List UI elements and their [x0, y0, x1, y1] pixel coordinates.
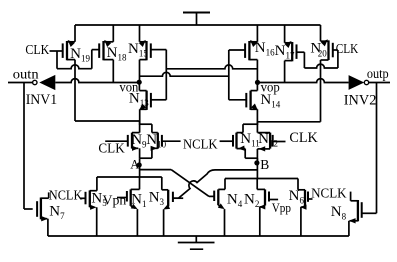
wire N18 source to von — [112, 60, 114, 83]
wire N9 source down — [139, 148, 141, 158]
label N2 — [244, 192, 259, 210]
label Vpp — [272, 200, 291, 215]
svg-text:N15: N15 — [128, 41, 148, 59]
svg-text:outp: outp — [367, 67, 389, 82]
ground rail — [48, 235, 349, 237]
wire N15/N13 gates column — [165, 50, 167, 100]
wire pair bottom to node B — [256, 158, 258, 178]
transistor N20 — [321, 25, 338, 60]
label N6 — [289, 188, 305, 206]
svg-text:CLK: CLK — [25, 43, 49, 58]
label N11 — [240, 131, 260, 149]
label N10 — [146, 132, 166, 150]
wire outp to N8 gate — [362, 83, 376, 214]
label N18 — [107, 45, 127, 63]
power supply VDD symbol — [183, 12, 210, 26]
transistor N3 — [162, 177, 183, 236]
transistor N8 — [349, 192, 362, 236]
transistor N14 — [229, 82, 258, 110]
svg-text:NCLK: NCLK — [183, 138, 218, 153]
wire vop to N15/N13 gates — [166, 65, 257, 69]
wire CLK to N18 gate — [57, 50, 92, 69]
wire outp stub — [369, 82, 390, 84]
node B — [254, 160, 259, 165]
svg-text:N6: N6 — [289, 188, 305, 206]
wire N17 source to vop wire — [284, 61, 286, 83]
wire N19 source down to N9/N10 drains — [75, 60, 140, 121]
label N15 — [128, 41, 148, 59]
wire outn stub — [8, 82, 33, 84]
wire N13 source down — [139, 109, 141, 125]
label INV1 — [26, 92, 58, 108]
wire N20 source down to N11/N12 drains — [257, 60, 320, 122]
wire N11 source down — [245, 149, 257, 159]
svg-text:N3: N3 — [149, 189, 165, 207]
svg-text:N9: N9 — [131, 132, 147, 150]
label N12 — [258, 131, 278, 149]
label N1 — [131, 191, 146, 209]
label B — [260, 157, 269, 172]
transistor N11 — [220, 133, 246, 151]
wire outn to N7 gate — [24, 83, 33, 210]
label vop — [261, 81, 280, 96]
wire INV1 to von node — [55, 79, 139, 83]
svg-text:B: B — [260, 157, 269, 172]
wire CLK to N17 gate — [304, 50, 338, 68]
transistor N1 — [117, 177, 140, 236]
label INV2 — [344, 93, 377, 109]
svg-text:N2: N2 — [244, 192, 259, 210]
label N19 — [70, 46, 90, 64]
svg-text:CLK: CLK — [98, 142, 124, 157]
label CLK middle-left — [98, 142, 124, 157]
label N20 — [310, 40, 327, 58]
label CLK top-left — [25, 43, 49, 58]
label NCLK bottom-right — [311, 186, 347, 201]
svg-text:INV2: INV2 — [344, 93, 377, 109]
svg-text:N10: N10 — [146, 132, 166, 150]
label NCLK bottom-left — [49, 189, 83, 204]
transistor N7 — [37, 192, 49, 236]
transistor N16 — [229, 25, 258, 60]
transistor N9 — [105, 133, 139, 151]
transistor N10 — [151, 133, 181, 151]
svg-text:N4: N4 — [227, 191, 243, 209]
label N16 — [255, 40, 275, 58]
label N17 — [275, 43, 295, 61]
wire N11/N12 drain tee — [243, 122, 257, 133]
wire N16/N14 gates column — [228, 50, 230, 100]
label CLK top-right — [336, 42, 359, 57]
wire node B to input drains right — [225, 178, 298, 180]
svg-text:NCLK: NCLK — [49, 189, 83, 204]
wire N10 source down — [140, 148, 152, 158]
transistor N5 — [80, 177, 97, 236]
label outp — [367, 67, 389, 82]
wire N15 source to von node — [139, 60, 141, 83]
label N7 — [49, 204, 65, 222]
VDD rail — [75, 24, 321, 26]
label Vpn — [103, 194, 127, 209]
label N4 — [227, 191, 243, 209]
svg-text:N1: N1 — [131, 191, 146, 209]
svg-text:N19: N19 — [70, 46, 90, 64]
inverter INV2 — [349, 75, 365, 90]
svg-text:N12: N12 — [258, 131, 278, 149]
svg-text:NCLK: NCLK — [311, 186, 347, 201]
svg-text:N7: N7 — [49, 204, 65, 222]
wire N16 source to vop node — [256, 60, 258, 83]
svg-text:INV1: INV1 — [26, 92, 58, 108]
svg-text:CLK: CLK — [336, 42, 359, 57]
node outn circle — [33, 80, 37, 84]
label N5 — [91, 190, 107, 208]
label N9 — [131, 132, 147, 150]
wire vop node to INV2 — [257, 79, 348, 83]
svg-text:CLK: CLK — [289, 130, 317, 146]
transistor N6 — [298, 179, 313, 237]
transistor N18 — [92, 25, 114, 60]
node outp circle — [364, 80, 368, 84]
node vop — [255, 80, 260, 85]
svg-text:Vpn: Vpn — [103, 194, 127, 209]
transistor N2 — [257, 179, 278, 237]
transistor N4 — [209, 179, 225, 237]
transistor N19 — [50, 25, 76, 60]
ground symbol — [178, 236, 215, 249]
label A — [130, 158, 139, 172]
wire N14 source down — [256, 109, 258, 125]
inverter INV1 — [39, 75, 55, 90]
label N3 — [149, 189, 165, 207]
node A — [137, 162, 142, 167]
transistor N17 — [285, 25, 305, 61]
label NCLK middle — [183, 138, 218, 153]
svg-text:N11: N11 — [240, 131, 260, 149]
svg-text:N18: N18 — [107, 45, 127, 63]
svg-text:N16: N16 — [255, 40, 275, 58]
wire node B to N3 gate — [173, 170, 258, 198]
label outn — [13, 67, 39, 82]
transistor N15 — [139, 25, 167, 60]
wire N9/N10 drain tee — [140, 121, 152, 133]
transistor N13 — [139, 82, 166, 110]
label N8 — [331, 204, 347, 222]
svg-text:N8: N8 — [331, 204, 347, 222]
label N13 — [129, 91, 149, 109]
label N14 — [260, 92, 280, 110]
wire pair bottom to node A — [139, 158, 141, 177]
label CLK middle-right — [289, 130, 317, 146]
wire N12 source down — [256, 149, 258, 162]
wire von to N16/N14 gates — [139, 72, 228, 76]
label von — [119, 80, 138, 95]
wire node A to input drains left — [97, 176, 162, 178]
node von — [137, 80, 142, 85]
svg-text:A: A — [130, 158, 139, 172]
wire node A to N4 gate — [140, 170, 209, 197]
transistor N12 — [257, 133, 285, 152]
